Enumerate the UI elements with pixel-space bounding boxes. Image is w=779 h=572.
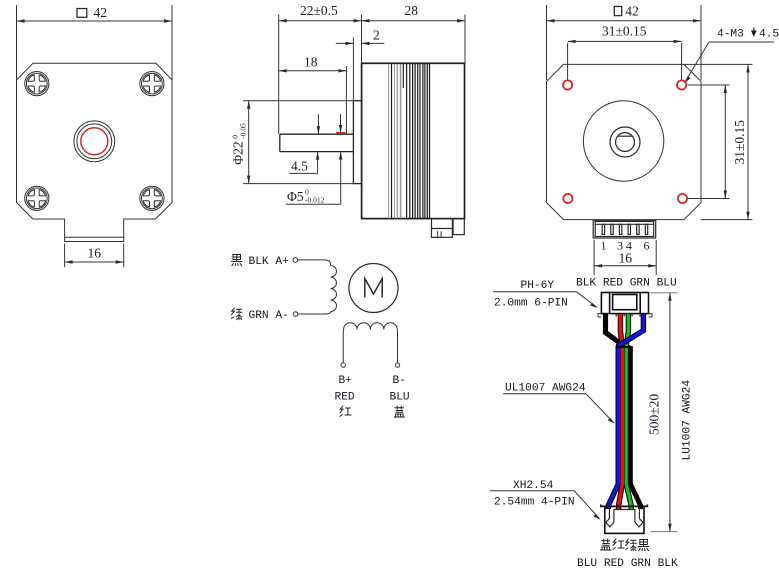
right side extension line from bottom hole [688, 198, 730, 200]
svg-text:4.5: 4.5 [759, 29, 779, 41]
dimension 500±20 rotated label [647, 394, 662, 435]
svg-text:31±0.15: 31±0.15 [732, 120, 747, 165]
bundle core red [621, 348, 624, 485]
dimension 500±20 extension top [651, 292, 678, 294]
callout 4-M3 depth 4.5 label [717, 28, 779, 41]
front shaft circle (red) [81, 128, 108, 155]
svg-text:XH2.54: XH2.54 [513, 480, 554, 492]
svg-text:Φ22: Φ22 [231, 141, 246, 164]
wire red (top section) [620, 314, 622, 346]
shaft top line [280, 133, 354, 135]
svg-text:UL1007 AWG24: UL1007 AWG24 [505, 383, 586, 395]
right side extension line from body bottom [701, 219, 753, 221]
side view bottom connector box [432, 219, 453, 238]
wire blue (top section) [618, 314, 643, 349]
label hong (red) [340, 406, 351, 416]
boss top extension line to phi22 dim [243, 100, 353, 102]
wire B- down [396, 329, 398, 362]
label lv GRN A- [232, 308, 289, 322]
bundle splay black [630, 484, 640, 509]
bundle core blue [617, 348, 621, 485]
bundle core green [625, 348, 628, 485]
dimension 42 (front) dimension line [17, 19, 173, 22]
dimension 16 (front tab) extension lines [64, 244, 66, 268]
svg-text:B-: B- [393, 375, 406, 387]
dimension 42 (rear) label [614, 4, 638, 19]
bundle splay red [619, 484, 623, 509]
dimension 31±0.15 (right) rotated label [732, 120, 747, 165]
front tab seam line [65, 236, 124, 238]
dimension 42 (front) label [77, 5, 107, 20]
shaft flat red mark [336, 132, 345, 134]
shaft bottom line [280, 151, 354, 153]
terminal A- [293, 312, 298, 317]
dimension 42 (front) extension line right [171, 5, 173, 80]
XH connector body [605, 506, 644, 533]
svg-text:BLU RED GRN BLK: BLU RED GRN BLK [577, 558, 678, 570]
rear connector housing [593, 220, 656, 238]
PH label leader [493, 292, 598, 308]
front pilot boss circle outer [74, 121, 115, 162]
pin number labels 1 3 4 6 [601, 239, 650, 253]
dimension 16 (rear connector) dimension line [594, 264, 656, 267]
shaft end line [279, 134, 281, 151]
svg-text:2: 2 [373, 28, 380, 43]
right side extension line from top hole [688, 84, 730, 86]
dimension 4.5 arrows [316, 114, 320, 173]
screw top-right [140, 72, 164, 96]
svg-text:GRN A-: GRN A- [249, 310, 289, 322]
motor circle M [349, 264, 398, 313]
extension line for 18 dim [345, 66, 347, 134]
wire B+ down [342, 329, 344, 362]
extension boss face up to 2 dim [352, 38, 354, 101]
dimension 42 (rear) dimension line [547, 19, 702, 22]
XH connector flange [601, 505, 648, 507]
svg-text:22±0.5: 22±0.5 [300, 3, 338, 18]
coil B (horizontal) [344, 323, 398, 330]
terminal B+ [341, 363, 345, 367]
wire black A (top section) [606, 314, 631, 352]
dimension 42 (front) extension line left [16, 5, 18, 80]
svg-text:-0.012: -0.012 [305, 196, 325, 205]
wire A- to coil [298, 312, 331, 314]
bundle splay blue [608, 484, 618, 509]
dimension phi22 vertical line [247, 101, 250, 184]
dimension 22±0.5 line [279, 19, 362, 22]
dimension phi5 arrows [339, 114, 343, 204]
bundle splay green [626, 484, 631, 509]
PH connector feet [598, 314, 652, 317]
front pilot boss circle inner [77, 124, 112, 159]
mounting hole top-left (red) [563, 80, 572, 89]
cable bundle sheath (black base) [616, 346, 633, 486]
coil A (vertical) [331, 266, 337, 312]
front view body outline [17, 63, 173, 241]
screw bottom-left [25, 186, 49, 210]
dimension 500±20 vertical line [668, 293, 671, 532]
rear view body outline [547, 64, 702, 219]
terminal B- [395, 363, 399, 367]
dimension 28 line [362, 19, 466, 22]
dimension 31±0.15 (right inner) vertical line [724, 85, 727, 199]
svg-text:2.54mm 4-PIN: 2.54mm 4-PIN [494, 497, 575, 509]
label lan (blue) [394, 406, 405, 417]
svg-text:BLU: BLU [390, 391, 410, 403]
mounting hole top-right (red) [677, 80, 686, 89]
dimension 2 (boss) lines and arrows [336, 42, 385, 45]
svg-text:18: 18 [304, 55, 318, 70]
rear rotor circle [583, 101, 663, 181]
callout 4-M3 leader line and arrow [684, 42, 774, 84]
label hei BLK A+ [232, 255, 290, 269]
UL label leader [503, 394, 615, 424]
side view motor body [362, 63, 465, 218]
svg-text:2.0mm 6-PIN: 2.0mm 6-PIN [494, 298, 568, 310]
terminal A+ [293, 258, 298, 263]
svg-text:4.5: 4.5 [291, 159, 308, 174]
svg-text:500±20: 500±20 [647, 394, 662, 435]
extension body face up to dim [361, 15, 363, 64]
XH label leader [490, 491, 601, 520]
svg-text:Φ5: Φ5 [287, 189, 304, 204]
dimension 4.5 label and leader [289, 159, 317, 174]
svg-text:PH-6Y: PH-6Y [521, 280, 555, 292]
dimension phi5 label and leader [286, 188, 341, 205]
label LU1007 AWG24 (rotated) [682, 380, 694, 461]
dimension phi22 label (rotated) [231, 123, 248, 165]
svg-text:B+: B+ [339, 375, 353, 387]
wire green (top section) [626, 314, 628, 346]
dimension 500±20 extension bottom [651, 531, 678, 533]
mounting hole bottom-left (red) [563, 194, 572, 203]
svg-text:16: 16 [88, 246, 102, 261]
lamination lines [389, 64, 430, 218]
mounting hole bottom-right (red) [678, 194, 687, 203]
wire A+ to coil [298, 260, 331, 266]
label lan hong lv hei (blue red green black) [601, 539, 649, 551]
dimension 16 (front tab) dimension line [65, 260, 124, 263]
XH connector cavity and latches [606, 506, 643, 527]
dimension 31±0.15 (top) extension lines [567, 43, 569, 80]
svg-text:28: 28 [405, 3, 419, 18]
svg-text:6: 6 [644, 239, 650, 253]
side view connector right tab [453, 219, 464, 235]
svg-text:BLK RED GRN BLU: BLK RED GRN BLU [576, 278, 677, 290]
svg-text:LU1007 AWG24: LU1007 AWG24 [682, 380, 694, 461]
PH connector housing [601, 293, 648, 314]
pilot boss side rectangle [353, 101, 361, 184]
dimension 42 (rear) extension lines [546, 5, 548, 80]
svg-text:4-M3: 4-M3 [717, 29, 744, 41]
svg-text:RED: RED [335, 391, 355, 403]
boss bottom extension line to phi22 dim [243, 183, 353, 185]
dimension 18 line [279, 69, 347, 72]
screw bottom-right [140, 186, 164, 210]
svg-text:BLK A+: BLK A+ [249, 256, 290, 268]
rear connector pins [602, 224, 648, 234]
screw top-left [25, 72, 49, 96]
PH connector pin ticks [616, 314, 640, 317]
svg-text:-0.05: -0.05 [239, 123, 248, 139]
right side extension line from body top [684, 63, 753, 65]
rear hub circle [610, 127, 640, 157]
svg-text:1: 1 [601, 239, 607, 253]
svg-text:31±0.15: 31±0.15 [602, 24, 647, 39]
dimension 31±0.15 (top) dimension line [568, 40, 682, 43]
svg-text:42: 42 [94, 5, 108, 20]
extension line shaft end up to 22 dim [278, 15, 280, 135]
svg-text:16: 16 [619, 251, 633, 266]
dimension 16 (rear connector) extension lines [593, 240, 595, 275]
extension rear face up to dim [464, 15, 466, 64]
dimension 42 (right outer) vertical line [746, 64, 749, 219]
svg-text:42: 42 [625, 4, 639, 19]
rear shaft circle with flat [616, 133, 635, 152]
